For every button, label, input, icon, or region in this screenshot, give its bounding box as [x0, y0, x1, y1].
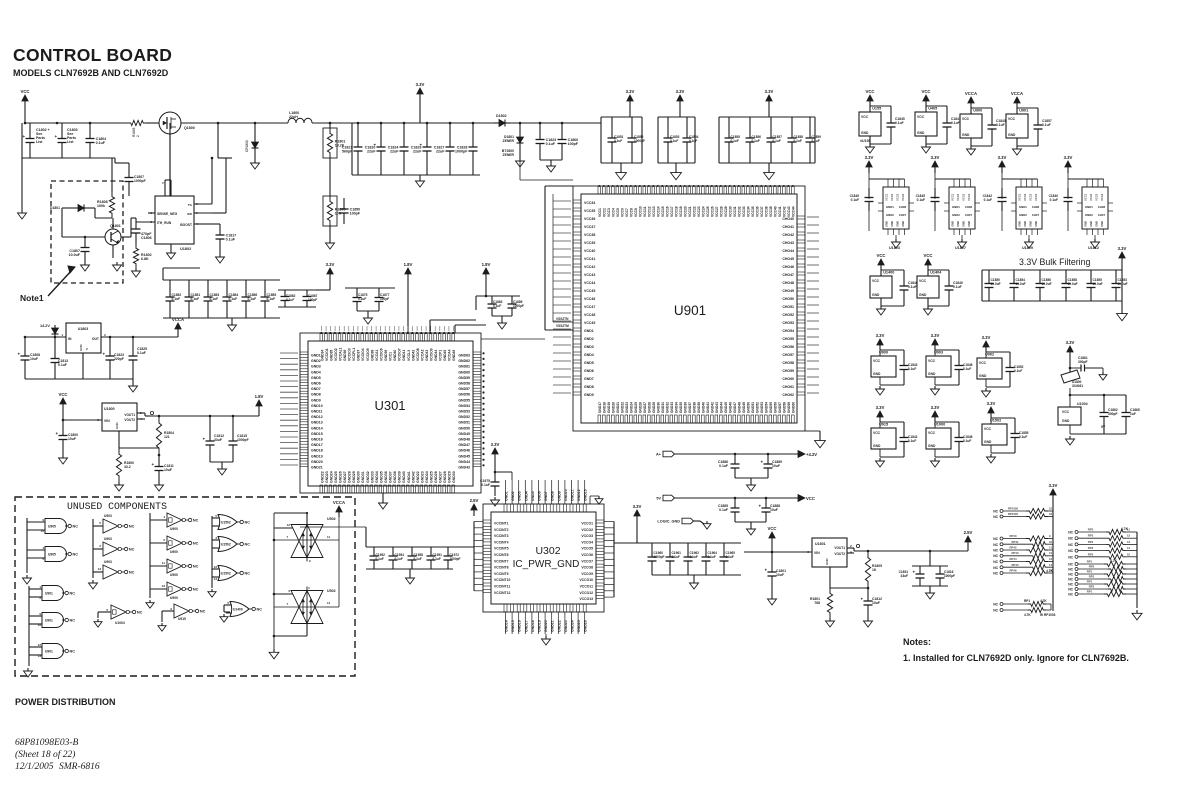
svg-text:VCC3: VCC3 — [1029, 193, 1033, 201]
svg-text:RP1: RP1 — [1087, 580, 1093, 584]
svg-text:RP1: RP1 — [1024, 599, 1030, 603]
svg-text:VCC1: VCC1 — [1018, 193, 1022, 201]
svg-text:43.2: 43.2 — [124, 465, 131, 469]
svg-text:VCCL3: VCCL3 — [407, 350, 411, 361]
ground group3 — [768, 163, 770, 169]
svg-text:VCC38: VCC38 — [584, 233, 595, 237]
svg-text:GND6: GND6 — [584, 369, 594, 373]
diode D1801 zener — [519, 123, 521, 130]
gate U900 a — [149, 513, 151, 598]
svg-text:3.3V: 3.3V — [416, 82, 425, 87]
svg-text:+: + — [152, 462, 155, 467]
svg-text:VCCA: VCCA — [172, 317, 184, 322]
svg-text:0.1uF: 0.1uF — [908, 285, 917, 289]
svg-text:13: 13 — [162, 584, 166, 588]
svg-text:12: 12 — [38, 643, 42, 647]
svg-text:VCC16: VCC16 — [665, 206, 669, 217]
svg-text:NC: NC — [993, 609, 998, 613]
svg-text:0.1uF: 0.1uF — [752, 139, 760, 143]
svg-text:VCC: VCC — [979, 361, 987, 365]
svg-text:VCCO1: VCCO1 — [581, 522, 593, 526]
svg-text:CR1800: CR1800 — [245, 140, 249, 152]
svg-text:GND15: GND15 — [511, 620, 515, 632]
svg-text:3.3V: 3.3V — [876, 405, 885, 410]
svg-text:NC: NC — [1068, 588, 1073, 592]
svg-text:GND: GND — [1062, 419, 1070, 423]
transistor Q1800 — [159, 112, 181, 134]
ground bulk bank — [1121, 301, 1123, 310]
diode D1802 — [494, 122, 499, 124]
svg-text:10uF: 10uF — [770, 508, 778, 512]
capacitor row right of U302 — [651, 543, 653, 557]
svg-text:U903: U903 — [104, 514, 112, 518]
svg-text:VCC21: VCC21 — [688, 206, 692, 217]
svg-text:12: 12 — [287, 523, 291, 527]
svg-text:VCC1: VCC1 — [951, 193, 955, 201]
svg-text:GND27: GND27 — [643, 402, 647, 413]
IC U1004 right — [1058, 407, 1081, 425]
svg-text:GND: GND — [967, 221, 971, 227]
svg-text:+: + — [103, 352, 106, 357]
svg-text:0.1uF: 0.1uF — [951, 121, 960, 125]
svg-text:NC: NC — [993, 560, 998, 564]
svg-text:GND52: GND52 — [458, 415, 470, 419]
svg-text:VCCAL1: VCCAL1 — [339, 347, 343, 361]
svg-text:LOGIC_GND: LOGIC_GND — [657, 520, 680, 524]
svg-text:U903: U903 — [934, 351, 943, 355]
svg-text:NC: NC — [193, 588, 199, 592]
svg-text:GND33: GND33 — [370, 471, 374, 483]
svg-text:GND36: GND36 — [683, 402, 687, 413]
ground D1801 — [519, 150, 521, 158]
svg-text:2.5V: 2.5V — [470, 498, 479, 503]
capacitor C1807 — [84, 237, 86, 248]
svg-text:GND26: GND26 — [638, 402, 642, 413]
svg-text:VCCO10: VCCO10 — [579, 578, 593, 582]
svg-text:GND24: GND24 — [425, 471, 429, 483]
wire U901 left bus — [545, 185, 573, 187]
svg-text:VCC39: VCC39 — [769, 206, 773, 217]
svg-text:VCC10: VCC10 — [638, 206, 642, 217]
svg-text:14: 14 — [1127, 546, 1131, 550]
gate U901 a — [28, 586, 30, 666]
svg-text:0.1uF: 0.1uF — [172, 297, 181, 301]
svg-text:CHO60: CHO60 — [782, 377, 794, 381]
svg-text:UNUSED COMPONENTS: UNUSED COMPONENTS — [67, 501, 167, 512]
svg-text:V: V — [161, 182, 165, 184]
svg-text:GND16: GND16 — [311, 438, 323, 442]
svg-text:GND12: GND12 — [577, 489, 581, 501]
svg-text:GND24: GND24 — [571, 620, 575, 632]
svg-text:GND: GND — [901, 221, 905, 227]
svg-text:U1404: U1404 — [930, 271, 942, 275]
svg-text:0.1uF: 0.1uF — [851, 198, 859, 202]
U301 top pin numbers — [321, 326, 323, 331]
IC U900 bypass top — [960, 114, 982, 138]
svg-text:0.1uF: 0.1uF — [794, 139, 802, 143]
svg-text:GND37: GND37 — [688, 402, 692, 413]
svg-text:CHO57: CHO57 — [782, 353, 794, 357]
svg-text:GND53: GND53 — [760, 402, 764, 413]
svg-text:GND26: GND26 — [584, 620, 588, 632]
power 3.3V resistor network — [1052, 495, 1054, 500]
svg-text:GND13: GND13 — [311, 421, 323, 425]
svg-text:GND6: GND6 — [311, 382, 321, 386]
svg-text:4.7K: 4.7K — [1046, 569, 1054, 573]
svg-text:CHO47: CHO47 — [782, 273, 794, 277]
IC U1000 mid — [934, 417, 936, 422]
svg-text:GND4: GND4 — [311, 370, 321, 374]
connector 5V — [663, 495, 675, 501]
svg-text:VCC: VCC — [873, 431, 881, 435]
svg-text:12: 12 — [1127, 534, 1131, 538]
svg-text:VCC1: VCC1 — [1084, 193, 1088, 201]
svg-text:GND49: GND49 — [458, 432, 470, 436]
svg-text:4.7K: 4.7K — [1110, 559, 1118, 563]
svg-text:SMR-6816: SMR-6816 — [59, 762, 100, 772]
svg-text:NC: NC — [70, 619, 76, 623]
svg-text:0.1uF: 0.1uF — [963, 367, 971, 371]
U302 top right ground wire — [589, 496, 591, 504]
svg-text:GND10: GND10 — [311, 404, 323, 408]
svg-text:VCCIO7: VCCIO7 — [398, 348, 402, 361]
ground U905 — [26, 575, 28, 578]
svg-text:SW: SW — [187, 212, 192, 216]
inductor L1800 — [288, 118, 312, 123]
svg-text:CHO62: CHO62 — [782, 393, 794, 397]
capacitor C1886 — [734, 454, 736, 464]
ground C1807 — [84, 262, 86, 265]
svg-text:VCCA: VCCA — [333, 500, 345, 505]
svg-text:VCC8: VCC8 — [629, 208, 633, 217]
svg-text:0.1uF: 0.1uF — [719, 464, 728, 468]
svg-text:GND46: GND46 — [458, 449, 470, 453]
svg-text:GND42: GND42 — [411, 350, 415, 361]
IC U901 bypass top — [1006, 114, 1028, 138]
svg-text:3.3V: 3.3V — [987, 401, 996, 406]
svg-text:1.8V: 1.8V — [482, 262, 491, 267]
ground U502 — [273, 649, 275, 652]
svg-text:GND21: GND21 — [616, 402, 620, 413]
svg-text:13: 13 — [98, 567, 102, 571]
svg-text:VCC27: VCC27 — [715, 206, 719, 217]
svg-text:VCCINT5: VCCINT5 — [494, 547, 509, 551]
svg-text:Q1801: Q1801 — [110, 224, 121, 228]
svg-text:GND41: GND41 — [402, 350, 406, 361]
svg-text:VCC14: VCC14 — [656, 206, 660, 217]
gate U903 a — [92, 519, 94, 578]
power 3.3V above U301 — [329, 274, 331, 281]
svg-text:GND23: GND23 — [564, 620, 568, 632]
svg-text:CHO44: CHO44 — [782, 249, 794, 253]
svg-text:NC: NC — [993, 549, 998, 553]
svg-text:CHO43: CHO43 — [782, 241, 794, 245]
svg-text:3.3V: 3.3V — [931, 405, 940, 410]
U301 top pin dots — [320, 332, 322, 334]
svg-text:VCC: VCC — [873, 359, 881, 363]
svg-text:RP2: RP2 — [1089, 565, 1095, 569]
capacitor group2 above U901 — [679, 101, 681, 107]
svg-text:GND19: GND19 — [607, 402, 611, 413]
svg-text:D1801: D1801 — [50, 206, 60, 210]
gate U900 b — [150, 542, 167, 544]
svg-text:GND: GND — [1089, 221, 1093, 227]
svg-text:U901: U901 — [45, 592, 53, 596]
svg-text:VCC38: VCC38 — [764, 206, 768, 217]
ground U1004 right — [1069, 425, 1071, 434]
U302 left pin wires — [474, 521, 483, 523]
svg-text:3.3V: 3.3V — [998, 155, 1007, 160]
svg-text:220pF: 220pF — [114, 357, 124, 361]
svg-text:GND26: GND26 — [339, 471, 343, 483]
ground C1812 pair — [221, 466, 223, 469]
svg-text:ZENER: ZENER — [503, 153, 515, 157]
svg-text:3.3V: 3.3V — [765, 89, 774, 94]
svg-text:VCC2: VCC2 — [956, 193, 960, 201]
svg-text:U1004: U1004 — [1077, 402, 1088, 406]
svg-text:VCC43: VCC43 — [584, 273, 595, 277]
svg-text:GND: GND — [115, 422, 119, 430]
svg-text:0.1uF: 0.1uF — [1014, 369, 1022, 373]
svg-text:CHO51: CHO51 — [782, 305, 794, 309]
svg-text:VCC: VCC — [919, 279, 927, 283]
IC U1502 mid — [990, 413, 992, 418]
capacitor C1860 — [561, 123, 563, 140]
svg-text:VCC2: VCC2 — [602, 208, 606, 217]
U301 bottom pin comb — [320, 485, 323, 493]
svg-text:RP2: RP2 — [1089, 585, 1095, 589]
svg-text:RP1: RP1 — [1087, 590, 1093, 594]
svg-text:VCCIO8: VCCIO8 — [416, 348, 420, 361]
svg-text:12: 12 — [1049, 551, 1053, 555]
wire U1801 gnd pin — [829, 567, 831, 588]
svg-text:22uF: 22uF — [413, 149, 422, 153]
svg-text:3X4061: 3X4061 — [1072, 384, 1083, 388]
svg-text:U905: U905 — [48, 553, 56, 557]
svg-text:14: 14 — [327, 535, 331, 539]
svg-text:GND61: GND61 — [458, 365, 470, 369]
svg-text:NC: NC — [257, 608, 263, 612]
svg-text:CHO45: CHO45 — [782, 257, 794, 261]
svg-text:1000pF: 1000pF — [513, 304, 524, 308]
svg-text:GND1: GND1 — [505, 491, 509, 501]
svg-text:VCCIO4: VCCIO4 — [361, 348, 365, 361]
svg-text:1000pF: 1000pF — [654, 555, 665, 559]
svg-text:GND3: GND3 — [518, 491, 522, 501]
svg-text:GND4: GND4 — [524, 491, 528, 501]
svg-text:U1812: U1812 — [1088, 246, 1099, 250]
svg-text:IN: IN — [68, 337, 72, 341]
svg-text:GND5: GND5 — [531, 491, 535, 501]
svg-text:GND12: GND12 — [311, 415, 323, 419]
ground left cap row — [409, 569, 411, 575]
svg-text:RP42: RP42 — [1010, 546, 1017, 550]
svg-text:VCCIO1: VCCIO1 — [325, 348, 329, 361]
svg-text:1K: 1K — [872, 568, 877, 572]
svg-text:GND51: GND51 — [751, 402, 755, 413]
svg-text:GND48: GND48 — [737, 402, 741, 413]
svg-text:RP41: RP41 — [1012, 540, 1019, 544]
wire VCC to VIN — [62, 412, 64, 420]
svg-text:GND4: GND4 — [584, 353, 594, 357]
U302 bottom pin comb — [504, 604, 507, 612]
svg-text:0.1uF: 0.1uF — [226, 237, 236, 241]
svg-text:+: + — [861, 597, 864, 602]
svg-text:GND17: GND17 — [524, 620, 528, 632]
svg-text:VCC28: VCC28 — [719, 206, 723, 217]
power 1.8V above U301 left — [407, 274, 409, 281]
svg-text:GND25: GND25 — [634, 402, 638, 413]
svg-text:GND17: GND17 — [598, 402, 602, 413]
svg-text:GND18: GND18 — [531, 620, 535, 632]
svg-text:0.1uF: 0.1uF — [267, 297, 276, 301]
capacitor C1804 — [89, 123, 91, 139]
svg-text:VCC49: VCC49 — [584, 321, 595, 325]
svg-text:GND: GND — [873, 444, 881, 448]
gate U1502 b — [212, 539, 218, 541]
capacitor C1823 — [539, 123, 541, 140]
svg-text:0.1uF: 0.1uF — [984, 198, 992, 202]
svg-text:GND2: GND2 — [1085, 213, 1093, 217]
svg-text:GND: GND — [1095, 221, 1099, 227]
svg-text:GND26: GND26 — [434, 471, 438, 483]
svg-text:13: 13 — [1127, 540, 1131, 544]
svg-text:GND: GND — [956, 221, 960, 227]
ground U302 bottom — [545, 634, 547, 636]
svg-text:GND2: GND2 — [952, 213, 960, 217]
svg-text:VCCO8: VCCO8 — [581, 566, 593, 570]
U302 right pin comb — [596, 520, 604, 523]
ground U1803 — [132, 379, 134, 383]
ground C1975 — [494, 497, 496, 500]
ground group1 — [620, 163, 622, 169]
svg-text:GND3: GND3 — [584, 345, 594, 349]
svg-text:RP2: RP2 — [1089, 575, 1095, 579]
capacitor C1975 — [494, 472, 496, 482]
gate U1502 a — [211, 516, 213, 588]
svg-text:VCCA1: VCCA1 — [375, 349, 379, 361]
svg-text:VSS2TN: VSS2TN — [556, 317, 569, 321]
capacitor pair C1851 C1816 — [912, 565, 948, 567]
svg-text:GND28: GND28 — [443, 471, 447, 483]
svg-text:0.1uF: 0.1uF — [137, 351, 146, 355]
svg-text:A+: A+ — [656, 453, 662, 457]
svg-text:VCCINT6: VCCINT6 — [494, 553, 509, 557]
wire main VCC rail — [25, 122, 128, 124]
svg-text:GND41: GND41 — [407, 471, 411, 483]
svg-text:1.8V: 1.8V — [404, 262, 413, 267]
svg-text:VCC35: VCC35 — [751, 206, 755, 217]
svg-text:Note1: Note1 — [20, 293, 44, 303]
svg-text:13: 13 — [214, 577, 218, 581]
resistor R1808 — [109, 192, 114, 218]
svg-text:0.1uF: 0.1uF — [690, 555, 698, 559]
U301 left outer labels — [280, 352, 298, 354]
svg-text:GND57: GND57 — [458, 387, 470, 391]
svg-text:0.1uF: 0.1uF — [614, 139, 622, 143]
svg-text:VCC: VCC — [872, 279, 880, 283]
svg-text:POWER DISTRIBUTION: POWER DISTRIBUTION — [15, 697, 116, 707]
ground R1802 — [135, 268, 137, 271]
U901 top pin comb — [598, 186, 601, 194]
svg-text:GND38: GND38 — [393, 471, 397, 483]
wire A+ net — [675, 453, 799, 455]
svg-text:VCC39: VCC39 — [584, 241, 595, 245]
svg-text:GND23: GND23 — [625, 402, 629, 413]
svg-text:GND55: GND55 — [769, 402, 773, 413]
svg-text:U901: U901 — [1019, 109, 1028, 113]
svg-text:U900: U900 — [973, 109, 982, 113]
svg-text:68P81098E03-B: 68P81098E03-B — [15, 738, 79, 748]
svg-text:14: 14 — [1049, 563, 1053, 567]
wire U1800 out — [137, 412, 145, 414]
svg-text:U1400: U1400 — [883, 271, 894, 275]
svg-text:NC: NC — [129, 571, 135, 575]
svg-text:GND63: GND63 — [458, 354, 470, 358]
svg-text:ZENER: ZENER — [503, 139, 515, 143]
svg-text:GND55: GND55 — [458, 398, 470, 402]
svg-text:VCC4: VCC4 — [1100, 193, 1104, 201]
svg-text:GND43: GND43 — [425, 350, 429, 361]
svg-text:1000pF: 1000pF — [455, 149, 468, 153]
svg-text:0.1uF: 0.1uF — [726, 555, 734, 559]
U901 top pin dots — [598, 185, 600, 187]
svg-text:VCC: VCC — [767, 526, 776, 531]
wire gnd pin net — [118, 431, 120, 448]
wire 5V net — [675, 497, 799, 499]
svg-text:GND38: GND38 — [692, 402, 696, 413]
svg-text:NC: NC — [1068, 583, 1073, 587]
svg-text:3.3V: 3.3V — [1118, 246, 1127, 251]
capacitor C1811 — [158, 455, 160, 467]
svg-text:300pF: 300pF — [1078, 360, 1088, 364]
svg-text:GND27: GND27 — [439, 471, 443, 483]
wire branch x218 — [217, 123, 219, 158]
svg-text:List: List — [36, 140, 43, 144]
svg-text:VCC42: VCC42 — [782, 206, 786, 217]
IC U902 mid — [985, 347, 987, 352]
capacitor C1807 top — [128, 163, 130, 178]
capacitor C1812 C1815 pair — [209, 416, 211, 424]
power VCC U1801 — [771, 538, 773, 545]
svg-text:#U155: #U155 — [860, 139, 871, 143]
svg-text:3.3V: 3.3V — [1066, 340, 1075, 345]
svg-text:GND19: GND19 — [311, 454, 323, 458]
svg-text:VCC4: VCC4 — [611, 208, 615, 217]
ground R1806 — [329, 240, 331, 243]
svg-text:3.3V: 3.3V — [626, 89, 635, 94]
svg-text:VCC: VCC — [865, 89, 874, 94]
svg-text:3.3V: 3.3V — [982, 335, 991, 340]
svg-text:VCCINT2: VCCINT2 — [494, 528, 509, 532]
svg-text:VCCO9: VCCO9 — [581, 572, 593, 576]
svg-text:VCC20: VCC20 — [683, 206, 687, 217]
svg-text:10.0uF: 10.0uF — [991, 282, 1001, 286]
svg-text:VCC23: VCC23 — [697, 206, 701, 217]
capacitor row left of U302 — [366, 546, 474, 548]
svg-text:0.1uF: 0.1uF — [286, 298, 294, 302]
ground C1800 — [62, 455, 64, 458]
svg-text:CHO58: CHO58 — [782, 361, 794, 365]
ground cap row — [231, 318, 233, 322]
ground R1800 — [118, 482, 120, 485]
svg-text:GND58: GND58 — [782, 402, 786, 413]
svg-text:NC: NC — [1068, 593, 1073, 597]
svg-text:GND20: GND20 — [311, 460, 323, 464]
resistor R1801 — [329, 123, 331, 128]
gate U1004 unused — [98, 611, 111, 613]
IC U901 outline — [573, 186, 805, 431]
